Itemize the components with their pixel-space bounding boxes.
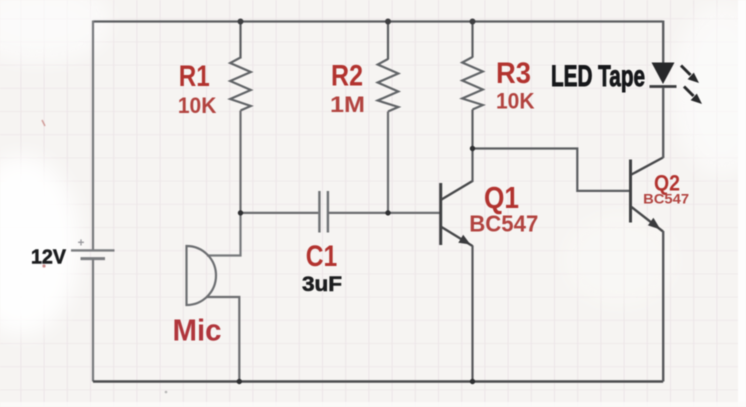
wire node A horizontal (R1 to C1) [241,212,319,214]
wire Q1 emitter lead [471,246,473,382]
transistor Q1 collector diagonal [442,181,473,200]
wire R1 bottom lead [239,111,241,213]
svg-text:R3: R3 [496,57,531,90]
svg-text:BC547: BC547 [643,191,689,207]
svg-text:R2: R2 [331,60,363,93]
junction dot bottom Q1 emitter [470,379,475,384]
wire right rail top (LED anode lead) [662,21,664,64]
transistor Q1 base bar [439,183,442,245]
svg-text:3uF: 3uF [302,273,342,296]
wire R3 top lead [471,22,473,58]
speck mid bottom [165,391,168,394]
speck left upper [42,120,45,126]
microphone Mic [187,246,217,305]
junction dot top R3 [470,19,476,25]
wire C1 to Q1 base [329,212,440,214]
capacitor C1 [319,191,328,233]
junction dot node B [385,210,390,215]
wire R2 top lead [387,22,389,60]
wire mic bottom lead [206,297,239,382]
transistor Q1 emitter arrow [458,235,470,245]
LED light arrow 2 [684,87,702,105]
transistor Q2 emitter arrow [648,218,661,230]
junction dot bottom mic [237,379,242,384]
wire top rail [93,20,663,22]
wire mic top lead [207,212,241,256]
svg-text:10K: 10K [496,89,535,114]
LED D1 triangle [652,63,675,85]
transistor Q2 emitter diagonal [632,207,664,232]
svg-text:LED Tape: LED Tape [551,60,645,93]
wire R1 top lead [239,22,241,59]
wire left rail lower [92,259,94,382]
resistor R3 [462,57,483,110]
battery B1 12V [71,238,115,259]
junction dot top R1 [238,19,244,25]
speck left [42,264,45,267]
transistor Q1 emitter diagonal [442,227,473,246]
transistor Q2 collector diagonal [632,158,664,175]
svg-text:+: + [78,238,85,250]
junction dot top R2 [385,19,391,25]
wire R3 node to Q2 base [473,149,630,191]
svg-text:1M: 1M [330,92,365,117]
svg-text:Mic: Mic [173,313,222,348]
junction dot node A [238,210,243,215]
svg-text:10K: 10K [178,93,217,118]
svg-text:BC547: BC547 [469,211,538,237]
wire left rail upper [92,21,94,251]
transistor Q2 base bar [629,160,632,223]
wire LED cathode to Q2 collector [662,88,664,159]
LED D1 cathode bar [650,85,677,88]
svg-text:C1: C1 [306,240,338,273]
wire Q2 emitter lead [662,231,664,382]
resistor R2 [378,59,399,112]
wire R3 bottom lead [471,110,473,149]
resistor R1 [230,58,251,111]
svg-text:R1: R1 [179,60,210,93]
wire bottom rail [93,380,663,382]
wire R2 bottom lead [387,112,389,213]
junction dot R3-Q1 collector [470,146,475,151]
wire Q1 collector lead [471,148,473,182]
LED light arrow 1 [681,66,699,84]
svg-text:12V: 12V [31,246,66,269]
